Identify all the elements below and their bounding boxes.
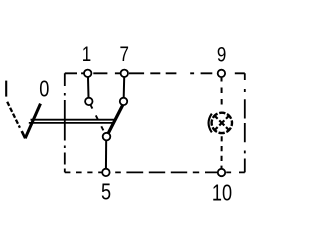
svg-text:1: 1 <box>82 42 91 66</box>
svg-text:9: 9 <box>217 43 226 67</box>
svg-text:10: 10 <box>212 181 232 207</box>
svg-text:7: 7 <box>119 42 128 66</box>
svg-text:0: 0 <box>39 77 49 103</box>
svg-text:5: 5 <box>101 179 111 205</box>
